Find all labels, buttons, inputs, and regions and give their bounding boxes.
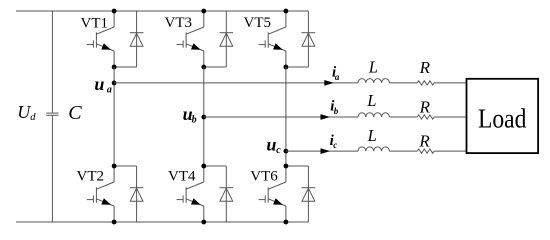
- svg-text:d: d: [30, 112, 36, 123]
- svg-text:R: R: [419, 98, 431, 117]
- svg-text:C: C: [68, 102, 82, 124]
- svg-text:VT3: VT3: [165, 15, 193, 31]
- svg-text:Load: Load: [478, 103, 527, 133]
- svg-text:R: R: [419, 58, 431, 77]
- svg-text:VT1: VT1: [81, 16, 109, 32]
- svg-text:c: c: [333, 140, 337, 150]
- svg-text:u: u: [266, 135, 276, 155]
- svg-text:a: a: [107, 85, 112, 96]
- svg-text:b: b: [334, 106, 339, 116]
- svg-text:U: U: [17, 102, 31, 122]
- svg-text:VT5: VT5: [244, 15, 272, 31]
- svg-text:a: a: [335, 72, 340, 82]
- svg-text:u: u: [94, 74, 104, 94]
- svg-text:L: L: [368, 57, 378, 76]
- svg-text:L: L: [367, 126, 377, 145]
- svg-text:VT4: VT4: [168, 168, 196, 184]
- svg-text:b: b: [192, 115, 197, 126]
- svg-text:VT6: VT6: [250, 168, 278, 184]
- svg-text:VT2: VT2: [77, 168, 105, 184]
- svg-text:R: R: [418, 131, 430, 150]
- svg-text:c: c: [276, 145, 281, 156]
- svg-text:L: L: [366, 91, 376, 110]
